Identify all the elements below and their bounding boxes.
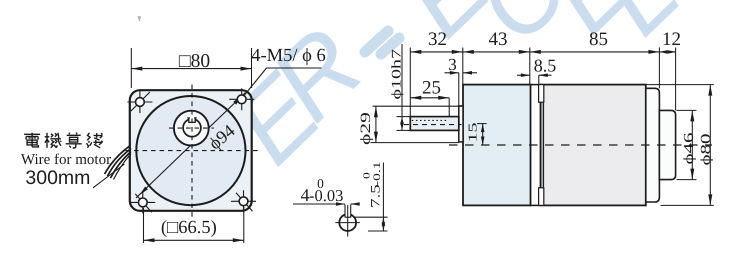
svg-text:4-M5/ ϕ 6: 4-M5/ ϕ 6 — [251, 46, 326, 66]
svg-text:3: 3 — [448, 55, 457, 74]
svg-text:12: 12 — [662, 29, 681, 50]
svg-text:□80: □80 — [179, 51, 210, 72]
svg-text:25: 25 — [422, 78, 441, 99]
svg-text:Wire for motor: Wire for motor — [21, 152, 111, 168]
svg-text:-0.03: -0.03 — [309, 186, 343, 205]
svg-text:85: 85 — [589, 29, 608, 50]
svg-text:ϕ29: ϕ29 — [357, 112, 373, 145]
svg-text:ϕ80: ϕ80 — [698, 133, 714, 165]
svg-text:300mm: 300mm — [25, 167, 90, 189]
svg-text:8.5: 8.5 — [534, 56, 557, 76]
svg-text:(□66.5): (□66.5) — [161, 218, 217, 238]
svg-text:-0.1: -0.1 — [371, 161, 382, 186]
svg-text:ϕ46: ϕ46 — [680, 132, 696, 164]
svg-text:0: 0 — [361, 172, 372, 179]
svg-text:15: 15 — [466, 123, 479, 143]
svg-text:7.5: 7.5 — [369, 184, 383, 208]
svg-text:43: 43 — [489, 29, 508, 50]
svg-text:32: 32 — [428, 29, 447, 50]
